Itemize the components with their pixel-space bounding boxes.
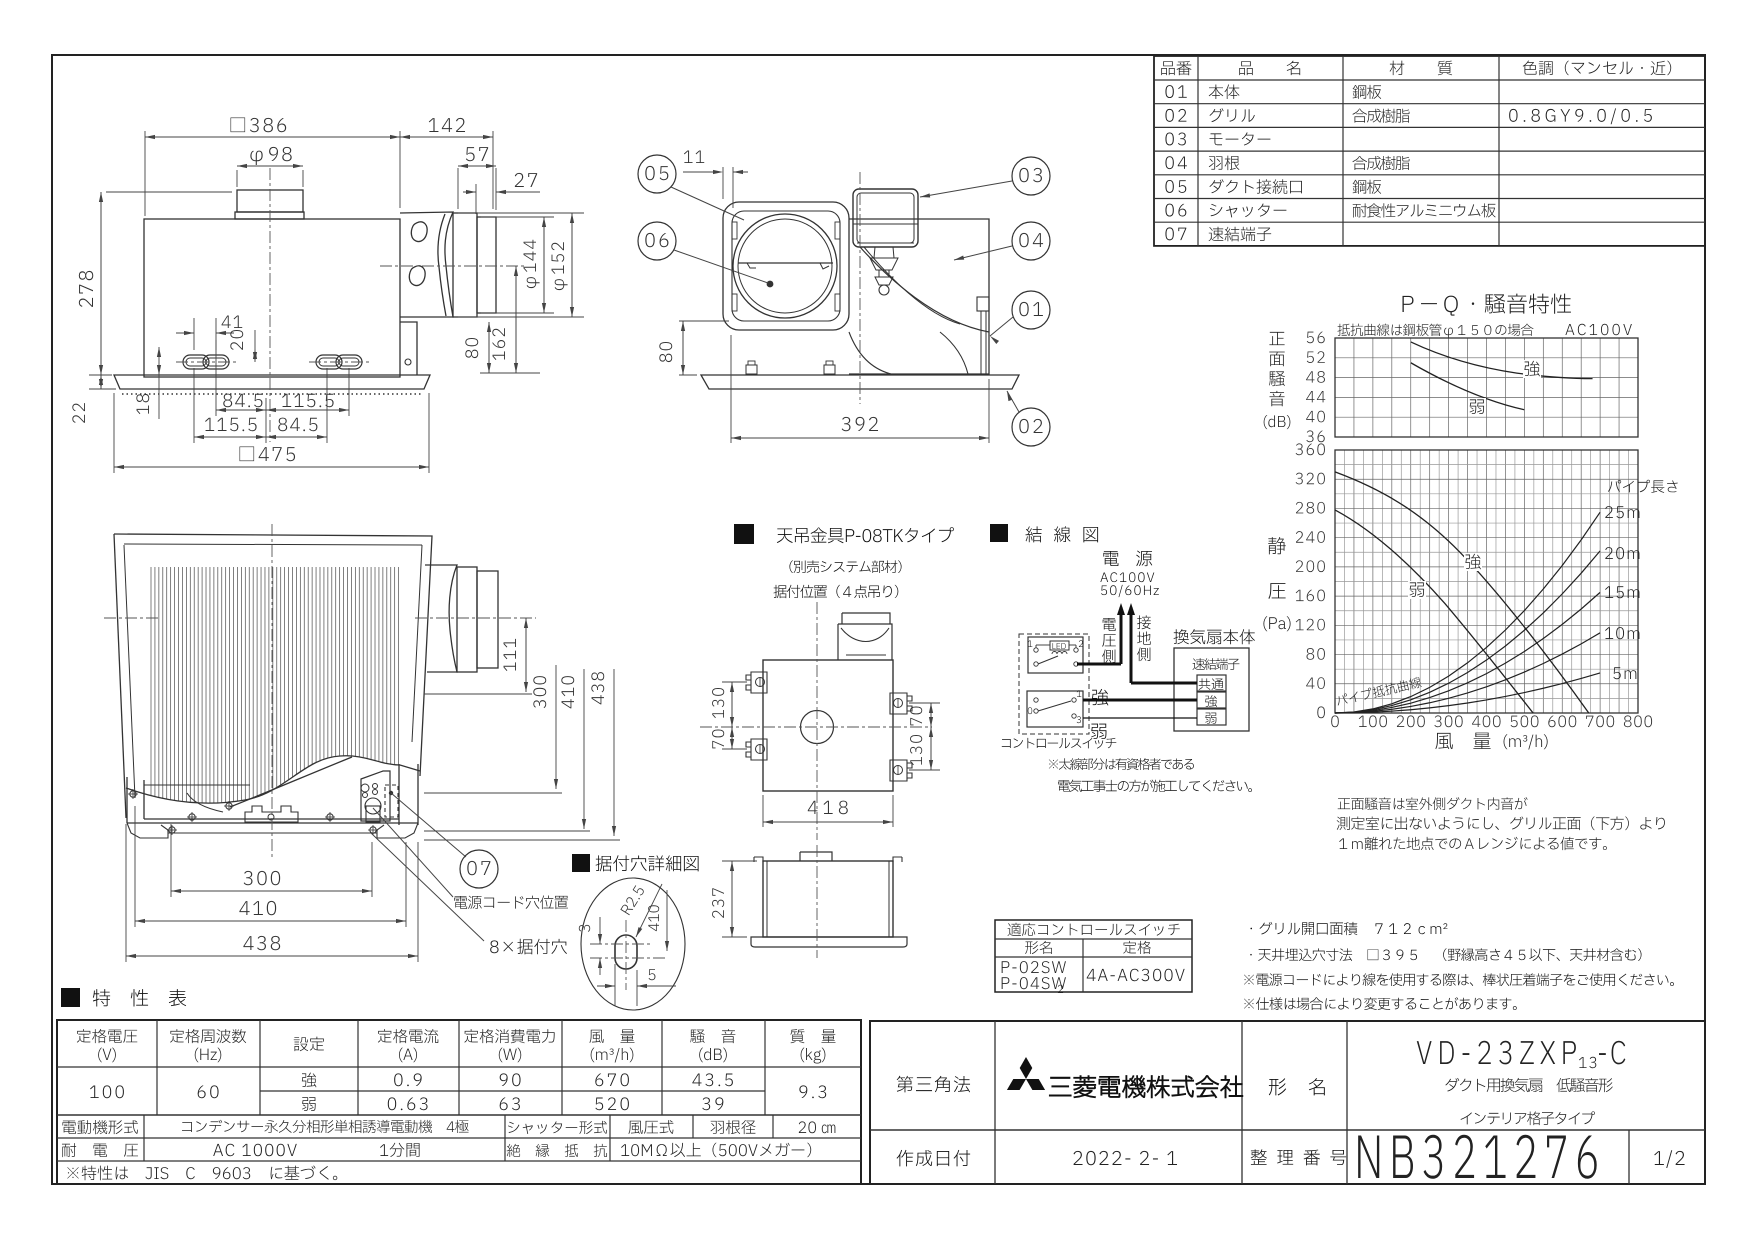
spec header texts [77, 1029, 137, 1043]
view B terminal bracket right [977, 297, 989, 311]
callout 01 [1012, 291, 1050, 329]
title block frame [870, 1021, 1705, 1184]
view A dim 475 [113, 393, 115, 473]
y axis title seiatsu Pa [1268, 537, 1286, 554]
callout 04 [1012, 222, 1050, 260]
view E dim 237 [722, 860, 757, 862]
detail centerlines [625, 920, 627, 990]
view B duct adapter rounded square [723, 202, 849, 330]
view D duct stub [842, 613, 890, 624]
view A dim 57 [457, 168, 459, 209]
detail slot hole [615, 935, 637, 969]
view A right bell mouth [400, 212, 453, 317]
callout 02 [1012, 408, 1050, 446]
pipe length labels [1608, 480, 1678, 493]
callout 06 [638, 222, 676, 260]
label sokketsu tanshi (wiring) [1193, 658, 1240, 670]
view C pipe centerline [415, 617, 536, 619]
wiring label secchi-gawa (vertical) [1137, 615, 1151, 629]
view B flange [701, 375, 1019, 389]
dB axis labels [1307, 332, 1325, 344]
control switch dashed box [1019, 634, 1089, 734]
PQ curve weak [1335, 510, 1533, 713]
view C pipe rings [457, 567, 477, 672]
callout 05 [638, 155, 676, 193]
view A pipe ring phi152 [453, 213, 477, 317]
switch 2 contacts [1034, 698, 1038, 702]
view A: fan unit front view body [144, 219, 400, 377]
view A dim phi98 [236, 170, 238, 187]
view D dim 130/70 left [722, 681, 747, 683]
callout 03 [1012, 157, 1050, 195]
view C dim 410 right [583, 669, 585, 829]
view C wavy break line [126, 756, 420, 803]
view A centerline vertical [269, 168, 271, 442]
view B motor box [853, 189, 918, 247]
view B fan scroll curves [860, 247, 989, 332]
view B leader dot 06 [767, 281, 774, 288]
title model number [1417, 1041, 1576, 1065]
view B shutter circle inner [738, 219, 832, 313]
title product desc [1445, 1078, 1612, 1092]
mitsubishi logo three diamonds [1020, 1057, 1033, 1079]
wiring note line2 [1058, 780, 1252, 792]
leader 8x sueduke [371, 833, 484, 941]
wire voltage from switch [1077, 663, 1121, 666]
pipe resistance curves [1335, 512, 1600, 713]
x axis title fuuryou [1435, 733, 1490, 750]
view D dim 70/130 right [909, 702, 940, 704]
wiring note line1 [1049, 758, 1194, 770]
terminal cell kyoutsuu [1197, 675, 1226, 691]
view A duct collar (phi98) [237, 190, 303, 212]
PQ label weak [1408, 581, 1426, 599]
header tenchou kanagu [734, 524, 754, 544]
view A dim 27 [475, 184, 477, 214]
fan body box [1174, 648, 1249, 731]
spec voltage row [62, 1143, 138, 1157]
label 8x suetsukeana [490, 939, 567, 955]
dB label strong [1523, 360, 1541, 378]
view D brackets [746, 672, 767, 693]
switch unit 2 box (selector) [1027, 691, 1083, 727]
Pa chart grid [1335, 450, 1638, 713]
view A slot holes left pair [183, 355, 209, 369]
wiring label kyou [1092, 689, 1108, 706]
view B dim 392 [730, 335, 732, 443]
view B dim 11 [722, 167, 724, 199]
spec motor row [62, 1120, 137, 1134]
view A pipe ring phi144 (27 wide) [477, 217, 496, 313]
control switch table [995, 920, 1192, 992]
spec jis note [67, 1166, 337, 1181]
wiring label jaku [1091, 724, 1106, 739]
view A centerline slots [176, 361, 238, 363]
view D center circle [801, 711, 834, 744]
Q axis labels [1331, 715, 1339, 727]
spec data row [90, 1085, 124, 1098]
view A dim 142 [492, 131, 494, 209]
view A body lower-right step [400, 322, 417, 375]
wire ground side up arrow [1130, 607, 1133, 683]
view C grille louver hatching [151, 567, 399, 806]
view D top view square [763, 660, 893, 791]
view A dim 18 [158, 347, 160, 419]
title sakusei hiduke [897, 1150, 971, 1166]
note ceiling hole [1250, 948, 1641, 961]
switch 1 terminals [1034, 648, 1038, 652]
y axis title shoumen souon dB [1269, 332, 1284, 345]
view A louver slot bean 2 [409, 266, 425, 286]
note grill opening area [1250, 922, 1447, 935]
view A dim 80 (right) [488, 322, 490, 373]
spec table header mark [61, 988, 80, 1007]
view B scroll outlet curve [940, 332, 968, 374]
view B centerline [859, 172, 861, 404]
parts table header [1161, 61, 1191, 75]
spec table row4/5 verticals [143, 1115, 145, 1161]
title date [1074, 1151, 1177, 1165]
LED box [1050, 641, 1069, 650]
dB label weak [1468, 398, 1486, 416]
terminal cell jaku [1197, 709, 1226, 725]
view A dim 20 [254, 330, 256, 362]
view B dim 80 [679, 320, 729, 322]
view E centerline [816, 845, 818, 958]
view E flange [751, 937, 907, 947]
spec table [57, 1020, 861, 1184]
view C dim 111 [525, 618, 527, 692]
view B adapter hinge tabs [732, 222, 737, 239]
view A dims 84.5 / 115.5 row1 [215, 340, 217, 416]
label control switch [1002, 738, 1116, 749]
view C dim 300 bottom [170, 824, 172, 897]
leader power cord [391, 793, 466, 857]
dB curve strong [1411, 342, 1593, 379]
parts table [1154, 56, 1705, 246]
detail dim 3 [599, 917, 601, 944]
chart title P-Q soon tokusei [1402, 294, 1570, 316]
header kessenzu [990, 524, 1008, 542]
view C dim 438 bottom [125, 824, 127, 962]
wire voltage side up arrow [1120, 607, 1123, 664]
view C fan scroll arc [230, 757, 352, 807]
view A dim 162 [515, 266, 517, 373]
detail R2.5 leader [636, 884, 662, 937]
title katamei [1269, 1078, 1325, 1095]
pipe resistance curve label [1335, 676, 1422, 707]
view A dims 115.5 / 84.5 row2 [193, 368, 195, 443]
view B shutter blade edge [738, 262, 833, 264]
LED coil [1052, 652, 1067, 655]
note spec change [1244, 997, 1517, 1010]
detail dim 410 [666, 890, 668, 951]
chart subtitle [1338, 324, 1534, 338]
header suetsukeana detail [572, 854, 590, 872]
wire ground to kyoutsuu [1131, 682, 1197, 685]
view D dim 418 [762, 795, 764, 827]
mitsubishi company name [1049, 1075, 1242, 1097]
view C ext line y694 [424, 693, 532, 695]
detail dim 5 [614, 964, 616, 1006]
view C grille panel outline [114, 534, 432, 776]
view B main body outline [849, 219, 989, 374]
detail ellipse [581, 878, 685, 1010]
view A dim phi152 [458, 212, 584, 214]
view C pipe bell [425, 565, 457, 672]
callout 07 [460, 850, 498, 888]
view B fan hub [874, 247, 875, 258]
note power cord [1244, 973, 1674, 986]
parts table rows [1165, 85, 1186, 98]
view B shutter circle outer [733, 214, 837, 318]
terminal cell kyou [1197, 692, 1226, 708]
wiring label denatsu-gawa (vertical) [1103, 618, 1116, 631]
view C dim 300 right [555, 665, 557, 789]
view A louver slot bean 1 [411, 222, 427, 242]
view E front view small [763, 861, 893, 937]
view A dim 22 [89, 374, 112, 376]
title NB number [1358, 1135, 1597, 1179]
wire kyou (strong) [1083, 699, 1197, 702]
wiring label kankisen hontai [1174, 629, 1255, 644]
view C bottom mechanism plate [127, 777, 144, 823]
view B feet tabs [746, 365, 757, 374]
label dengen cord hole [454, 895, 568, 909]
chart note text [1338, 797, 1528, 810]
view A dim 386 [144, 131, 146, 216]
view C latch center [245, 806, 298, 822]
view C terminal box [361, 771, 390, 821]
Pa axis labels [1317, 706, 1325, 718]
wire jaku (weak) [1083, 717, 1197, 719]
title daisankakuhou [897, 1076, 970, 1093]
dB curve weak [1411, 363, 1525, 410]
dB chart grid [1335, 338, 1638, 437]
PQ label strong [1464, 553, 1482, 571]
view A flange [114, 375, 430, 389]
view C screws [130, 791, 136, 797]
switch unit 1 box (LED) [1028, 637, 1083, 673]
view C dim 438 right [613, 669, 615, 836]
view A dim 41 [193, 318, 195, 350]
title seiri bangou [1251, 1149, 1346, 1165]
view C centerline horizontal [104, 617, 160, 619]
view A dim phi144 [481, 216, 554, 218]
title page [1654, 1150, 1684, 1168]
PQ curve strong [1335, 472, 1589, 713]
view D centerlines [816, 602, 818, 840]
view A dim 278 [106, 191, 232, 193]
view C dim 410 bottom [134, 806, 136, 927]
view C centerline vertical [271, 524, 273, 858]
wiring label dengen [1103, 550, 1152, 566]
view A centerline pipe axis [380, 265, 524, 267]
